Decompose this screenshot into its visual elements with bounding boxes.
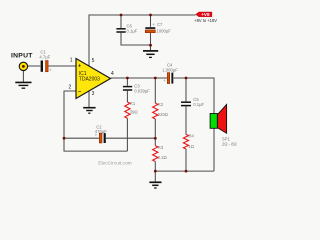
svg-text:1000µF: 1000µF [157, 29, 172, 34]
svg-text:2Ω - 8Ω: 2Ω - 8Ω [222, 141, 237, 146]
svg-text:ElecCircuit.com: ElecCircuit.com [98, 160, 131, 166]
svg-text:5: 5 [92, 58, 95, 64]
svg-text:3: 3 [92, 91, 95, 97]
svg-text:+: + [49, 68, 52, 73]
svg-text:39Ω: 39Ω [130, 109, 138, 114]
svg-text:1,000µF: 1,000µF [162, 68, 178, 73]
svg-text:INPUT: INPUT [11, 52, 33, 59]
svg-text:R2: R2 [158, 102, 164, 107]
svg-text:2: 2 [69, 85, 72, 91]
svg-text:1: 1 [70, 58, 73, 64]
svg-text:C7: C7 [157, 22, 163, 27]
svg-text:R1: R1 [130, 101, 136, 106]
svg-text:1Ω: 1Ω [189, 144, 194, 149]
svg-text:+: + [95, 133, 98, 138]
svg-text:+8V to +18V: +8V to +18V [194, 18, 217, 23]
svg-text:TDA2003: TDA2003 [79, 76, 100, 82]
svg-text:0.1µF: 0.1µF [127, 28, 138, 33]
svg-text:R3: R3 [158, 145, 164, 150]
svg-text:220Ω: 220Ω [158, 112, 168, 117]
svg-text:+: + [152, 22, 155, 27]
svg-text:2.2Ω: 2.2Ω [158, 155, 167, 160]
svg-text:C4: C4 [167, 62, 173, 67]
svg-text:R4: R4 [189, 134, 195, 139]
svg-text:+V8: +V8 [201, 12, 210, 17]
svg-text:0.1µF: 0.1µF [193, 102, 204, 107]
svg-text:0.039µF: 0.039µF [134, 89, 150, 94]
svg-text:4: 4 [111, 71, 114, 77]
svg-text:4.7µF: 4.7µF [39, 54, 50, 59]
svg-text:+: + [163, 78, 166, 83]
